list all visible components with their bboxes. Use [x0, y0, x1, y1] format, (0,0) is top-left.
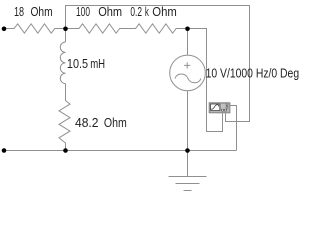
- svg-text:10.5: 10.5: [67, 56, 88, 71]
- svg-text:Ohm: Ohm: [152, 4, 177, 19]
- svg-text:100: 100: [76, 4, 90, 19]
- svg-text:k: k: [145, 4, 149, 19]
- svg-text:18: 18: [14, 4, 24, 19]
- svg-text:10 V/1000 Hz/0 Deg: 10 V/1000 Hz/0 Deg: [206, 65, 300, 80]
- svg-text:0.2: 0.2: [130, 4, 142, 19]
- svg-text:48.2: 48.2: [75, 115, 99, 130]
- svg-text:Ohm: Ohm: [98, 4, 122, 19]
- svg-text:Ohm: Ohm: [31, 4, 53, 19]
- svg-text:mH: mH: [90, 56, 105, 71]
- svg-text:Ohm: Ohm: [104, 115, 127, 130]
